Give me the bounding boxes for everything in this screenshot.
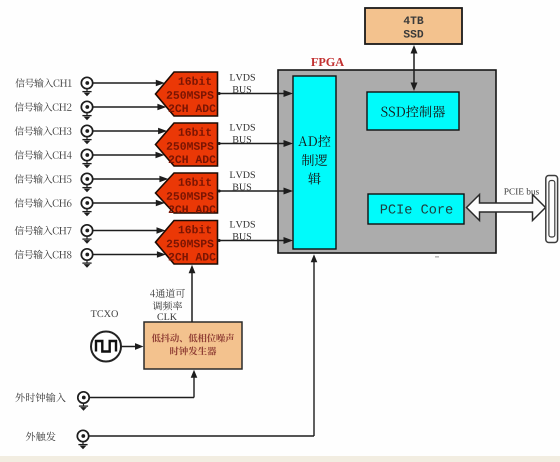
wire CH3 to ADC U2 xyxy=(93,128,167,135)
ADC U4 16bit 250MSPS 2CH xyxy=(156,221,218,265)
label LVDS BUS 1 xyxy=(230,74,255,93)
node ADC U3 output xyxy=(218,190,221,193)
FPGA U5 xyxy=(278,70,496,253)
connector J4 BNC CH4 xyxy=(81,149,92,168)
connector J8 BNC CH8 xyxy=(81,249,92,268)
label signal input CH1 xyxy=(15,78,71,87)
label LVDS BUS 4 xyxy=(230,221,255,240)
ADC U3 16bit 250MSPS 2CH xyxy=(156,173,218,213)
connector J6 BNC CH6 xyxy=(81,197,92,216)
label 4ch adjustable frequency CLK xyxy=(150,289,185,320)
block U5c PCIe Core xyxy=(368,194,464,224)
wire LVDS bus ADC U4 to FPGA xyxy=(218,237,294,244)
wire LVDS bus ADC U2 to FPGA xyxy=(218,140,294,147)
node ADC U4 output xyxy=(218,239,221,242)
wire CH1 to ADC U1 xyxy=(93,80,165,87)
SSD memory 4TB xyxy=(365,8,462,44)
connector J9 external clock xyxy=(78,392,89,411)
label external clock input xyxy=(15,393,65,402)
label signal input CH8 xyxy=(15,250,72,259)
block U5b SSD controller xyxy=(367,92,459,130)
node ADC U1 output xyxy=(218,92,221,95)
wire LVDS bus ADC U1 to FPGA xyxy=(218,90,294,97)
connector J10 external trigger xyxy=(77,430,88,449)
ADC U2 16bit 250MSPS 2CH xyxy=(156,123,218,166)
wire CH5 to ADC U3 xyxy=(93,176,169,183)
connector J1 BNC CH1 xyxy=(81,77,92,96)
label signal input CH2 xyxy=(15,102,72,111)
label signal input CH5 xyxy=(15,174,72,183)
wire CH8 to ADC U4 xyxy=(93,251,166,258)
label PCIE bus xyxy=(504,188,539,195)
label signal input CH3 xyxy=(15,126,72,135)
connector J3 BNC CH3 xyxy=(81,125,92,144)
label TCXO xyxy=(91,310,118,317)
clock generator U6 xyxy=(144,322,242,369)
wire external clock to clock generator xyxy=(89,370,197,398)
label signal input CH4 xyxy=(15,150,72,159)
wire TCXO to clock generator xyxy=(122,343,144,350)
wire CH4 to ADC U2 xyxy=(93,152,165,159)
wire CH7 to ADC U4 xyxy=(93,227,166,234)
label LVDS BUS 2 xyxy=(230,124,255,143)
artifact mark xyxy=(435,256,439,258)
connector J2 BNC CH2 xyxy=(81,101,92,120)
wire CH6 to ADC U3 xyxy=(93,200,165,207)
connector J5 BNC CH5 xyxy=(81,173,92,192)
label LVDS BUS 3 xyxy=(230,171,255,190)
wire SSD controller to SSD xyxy=(411,45,418,91)
label signal input CH7 xyxy=(15,226,72,235)
label FPGA xyxy=(311,58,344,66)
label signal input CH6 xyxy=(15,198,72,207)
block U5a AD control logic xyxy=(293,76,336,249)
wire LVDS bus ADC U3 to FPGA xyxy=(218,188,294,195)
oscillator Y1 TCXO xyxy=(91,332,121,362)
node ADC U2 output xyxy=(218,142,221,145)
bus PCIe double arrow xyxy=(467,195,546,221)
label external trigger xyxy=(26,432,56,441)
connector J7 BNC CH7 xyxy=(81,225,92,244)
connector PCIe slot xyxy=(546,176,558,243)
wire CH2 to ADC U1 xyxy=(93,104,167,111)
ADC U1 16bit 250MSPS 2CH xyxy=(156,72,218,116)
wire external trigger to FPGA xyxy=(89,254,317,436)
wire CLK clock generator to ADC U4 xyxy=(189,265,196,322)
